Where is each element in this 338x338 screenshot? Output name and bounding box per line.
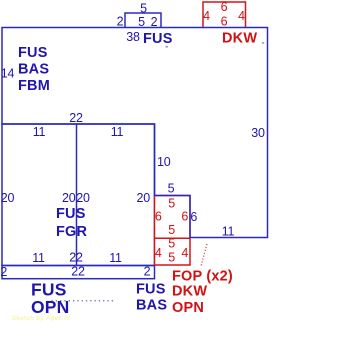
svg-text:10: 10 xyxy=(157,155,171,169)
svg-text:4: 4 xyxy=(238,9,245,23)
svg-text:FUS: FUS xyxy=(143,31,173,47)
svg-text:DKW: DKW xyxy=(172,284,207,300)
svg-text:14: 14 xyxy=(1,67,15,81)
svg-text:BAS: BAS xyxy=(18,62,49,78)
FGR lower-left rectangle xyxy=(2,124,155,266)
svg-text:11: 11 xyxy=(32,251,45,265)
red stacked boxes FOP/DKW/OPN xyxy=(155,196,191,266)
svg-text:FUS: FUS xyxy=(18,45,48,61)
svg-text:22: 22 xyxy=(69,251,83,265)
svg-text:FBM: FBM xyxy=(18,78,50,94)
svg-text:6: 6 xyxy=(181,210,188,224)
DKW red box top xyxy=(203,2,246,28)
svg-text:6: 6 xyxy=(221,15,228,29)
svg-text:4: 4 xyxy=(155,246,162,260)
svg-text:5: 5 xyxy=(140,1,147,15)
svg-text:20: 20 xyxy=(137,191,151,205)
main house outline xyxy=(2,28,268,238)
svg-text:30: 30 xyxy=(251,126,265,140)
FGR interior divider wall xyxy=(76,124,78,266)
porch strip OPN bottom xyxy=(2,266,155,279)
svg-text:2: 2 xyxy=(151,15,158,29)
svg-text:OPN: OPN xyxy=(172,300,204,316)
red dotted leader xyxy=(201,244,207,266)
stray mark near FUS xyxy=(166,46,168,48)
svg-text:DKW: DKW xyxy=(222,31,257,47)
svg-text:FGR: FGR xyxy=(56,224,88,240)
svg-text:5: 5 xyxy=(168,197,175,211)
blue dotted leader bottom xyxy=(52,300,114,302)
svg-text:FUS: FUS xyxy=(56,206,86,222)
svg-text:6: 6 xyxy=(221,0,228,14)
svg-text:20: 20 xyxy=(76,191,90,205)
svg-text:22: 22 xyxy=(71,265,85,279)
svg-text:22: 22 xyxy=(69,111,83,125)
red boxes divider xyxy=(155,237,191,239)
svg-text:2: 2 xyxy=(144,265,151,279)
svg-text:4: 4 xyxy=(181,246,188,260)
svg-text:38: 38 xyxy=(126,30,140,44)
svg-text:5: 5 xyxy=(168,223,175,237)
svg-text:BAS: BAS xyxy=(136,298,167,314)
svg-text:FOP (x2): FOP (x2) xyxy=(172,269,233,285)
svg-text:2: 2 xyxy=(117,15,124,29)
notch bump FUS top xyxy=(125,13,161,28)
svg-text:4: 4 xyxy=(203,9,210,23)
svg-text:6: 6 xyxy=(155,210,162,224)
svg-text:5: 5 xyxy=(168,182,175,196)
svg-text:5: 5 xyxy=(168,251,175,265)
svg-text:5: 5 xyxy=(138,15,145,29)
svg-text:Sketch by Apex IV: Sketch by Apex IV xyxy=(12,315,71,322)
svg-text:5: 5 xyxy=(168,237,175,251)
svg-text:2: 2 xyxy=(0,265,7,279)
svg-text:11: 11 xyxy=(109,251,122,265)
svg-text:11: 11 xyxy=(222,225,235,239)
stray mark near DKW xyxy=(262,42,264,44)
svg-text:6: 6 xyxy=(190,210,197,224)
svg-text:11: 11 xyxy=(111,125,124,139)
svg-text:11: 11 xyxy=(33,125,46,139)
svg-text:20: 20 xyxy=(1,191,15,205)
svg-text:20: 20 xyxy=(62,191,76,205)
svg-text:FUS: FUS xyxy=(136,282,166,298)
svg-text:OPN: OPN xyxy=(31,297,70,317)
